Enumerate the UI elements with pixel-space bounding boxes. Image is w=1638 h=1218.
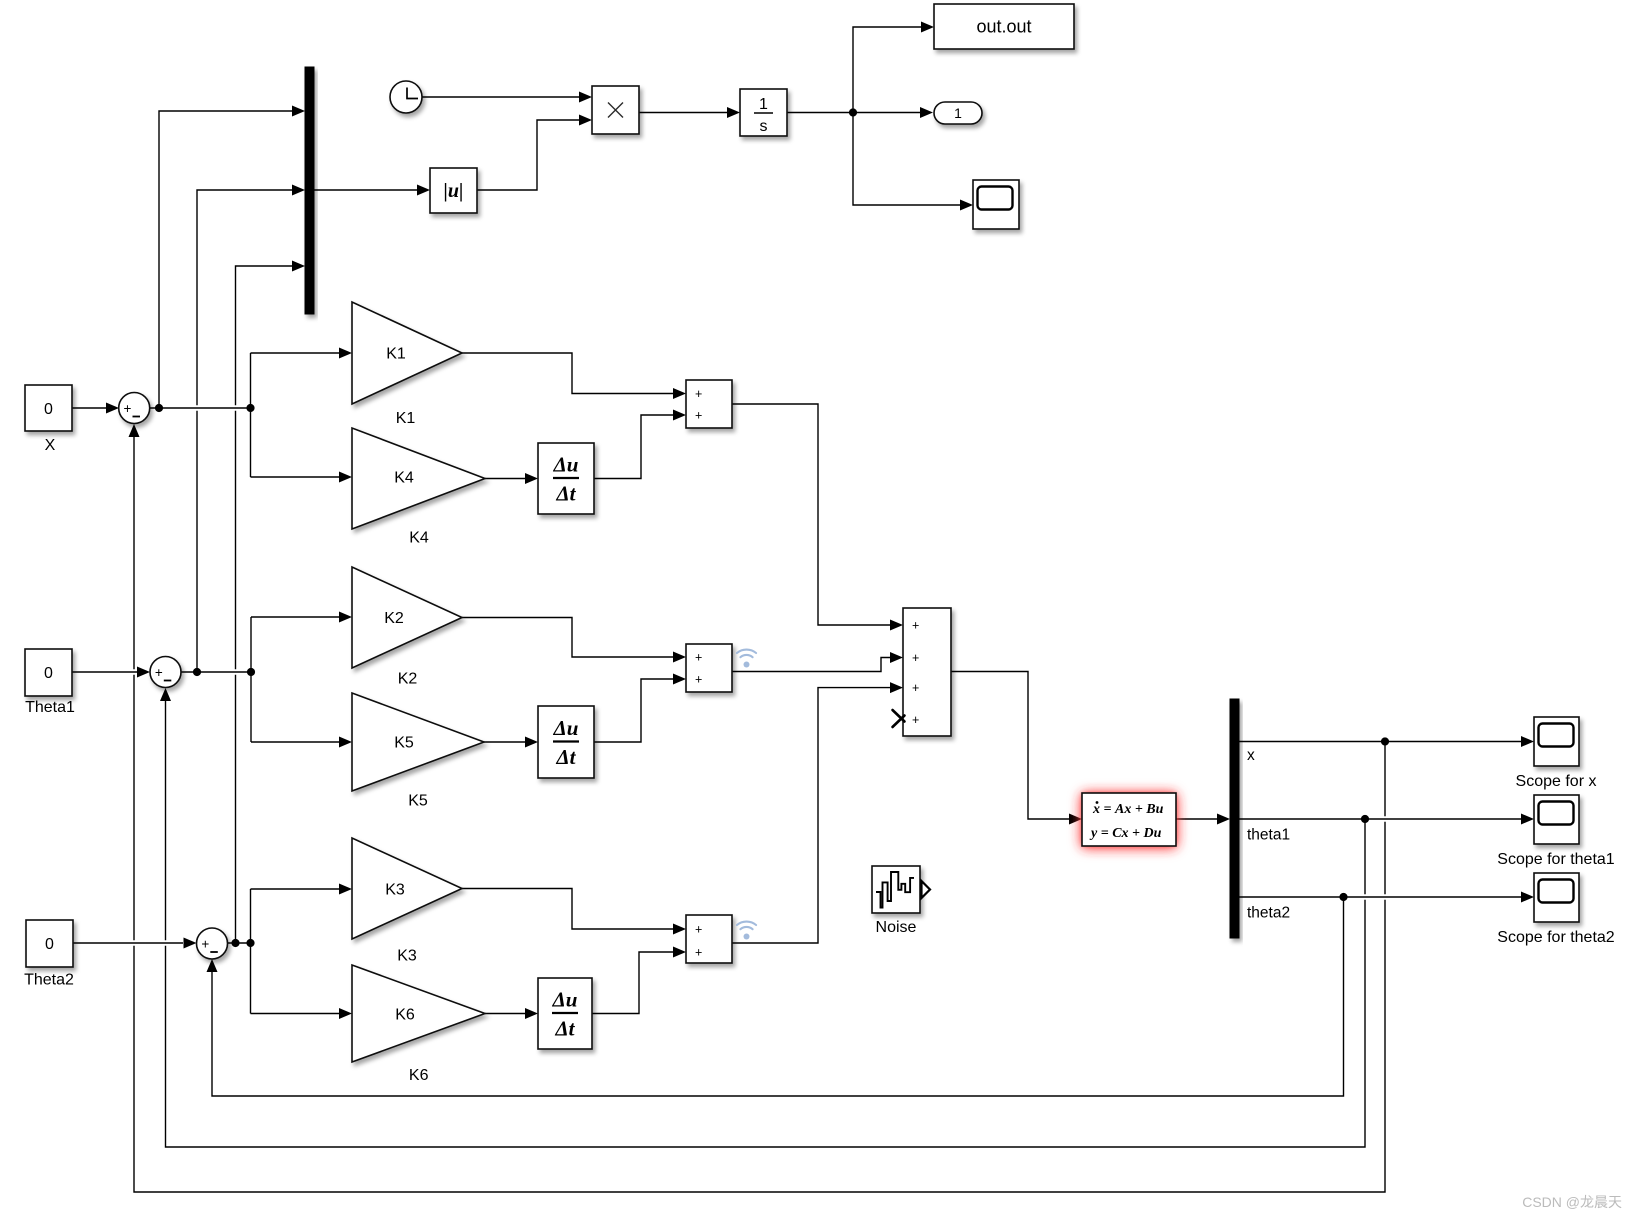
wire Integrator output bbox=[787, 112, 853, 114]
wire K1 to Add1 bbox=[462, 353, 673, 394]
junction node Sum2 output A bbox=[193, 668, 201, 676]
svg-text:+: + bbox=[912, 618, 919, 632]
wire to out.out bbox=[853, 27, 921, 113]
svg-text:K4: K4 bbox=[394, 470, 414, 487]
integrator block 1/s bbox=[740, 89, 787, 136]
scope block Scope for x bbox=[1534, 717, 1579, 766]
svg-text:+: + bbox=[695, 945, 702, 959]
clock block Clock bbox=[390, 81, 422, 113]
svg-text:Theta1: Theta1 bbox=[25, 699, 75, 716]
state-space block (red highlighted) bbox=[1082, 793, 1176, 846]
wire Sum3 output bbox=[228, 942, 251, 944]
svg-text:K2: K2 bbox=[398, 671, 418, 688]
wire to gain K2 bbox=[251, 616, 339, 618]
wire Derivative3 to Add3 bbox=[592, 952, 673, 1014]
wire Derivative1 to Add1 bbox=[594, 415, 673, 479]
wire Demux theta2 to Scope for theta2 bbox=[1239, 896, 1521, 898]
wire Add3 to Add4 input 3 bbox=[732, 688, 890, 943]
outport block 1 bbox=[934, 102, 982, 124]
wire theta1 feedback to Sum2 bbox=[166, 701, 1366, 1147]
wire Sum2 to Mux input 2 bbox=[197, 190, 292, 672]
junction node theta1 output bbox=[1361, 815, 1369, 823]
svg-text:K5: K5 bbox=[394, 735, 414, 752]
svg-text:Δu: Δu bbox=[553, 716, 579, 740]
svg-text:out.out: out.out bbox=[976, 17, 1031, 37]
wire Abs to Product bbox=[477, 120, 579, 190]
svg-text:K1: K1 bbox=[396, 410, 416, 427]
gain block K6 bbox=[352, 965, 485, 1062]
svg-text:0: 0 bbox=[44, 665, 53, 682]
svg-text:+: + bbox=[201, 937, 209, 952]
svg-text:1: 1 bbox=[759, 96, 768, 113]
wire Product to Integrator bbox=[639, 112, 727, 114]
svg-text:x = Ax + Bu: x = Ax + Bu bbox=[1092, 802, 1164, 817]
junction node K2/K5 branch bbox=[247, 668, 255, 676]
svg-text:K6: K6 bbox=[409, 1067, 429, 1084]
svg-text:K4: K4 bbox=[409, 530, 429, 547]
wire to gain K3 bbox=[251, 888, 340, 890]
wire Theta1 to Sum2 bbox=[72, 671, 137, 673]
svg-text:Scope for theta2: Scope for theta2 bbox=[1497, 929, 1615, 946]
wire to gain K6 bbox=[251, 1013, 340, 1015]
wire Sum2 output bbox=[181, 671, 251, 673]
wire Demux x to Scope for x bbox=[1239, 741, 1521, 743]
wire K2 K5 branch bbox=[250, 617, 252, 742]
wire Add4 to State-Space bbox=[951, 672, 1069, 820]
wire Demux theta1 to Scope for theta1 bbox=[1239, 818, 1521, 820]
svg-text:+: + bbox=[912, 681, 919, 695]
wire Add1 to Add4 input 1 bbox=[732, 404, 890, 625]
scope block Scope for theta2 bbox=[1534, 873, 1579, 922]
add block Add2 bbox=[686, 644, 732, 692]
svg-text:K6: K6 bbox=[395, 1007, 415, 1024]
wire theta2 feedback to Sum3 bbox=[212, 897, 1344, 1096]
signal logging badge on Add2 bbox=[737, 650, 756, 658]
svg-text:Δu: Δu bbox=[552, 988, 578, 1012]
junction node theta2 output bbox=[1339, 893, 1347, 901]
wire to gain K1 bbox=[251, 352, 340, 354]
wire to Outport 1 bbox=[853, 112, 920, 114]
abs block |u| bbox=[430, 168, 477, 213]
svg-text:+: + bbox=[912, 713, 919, 727]
demux Demux1 bbox=[1230, 699, 1239, 938]
svg-text:+: + bbox=[695, 387, 702, 401]
svg-text:+: + bbox=[155, 665, 163, 680]
noise block Noise bbox=[872, 866, 920, 913]
add block Add1 bbox=[686, 380, 732, 428]
junction node K1/K4 branch bbox=[246, 404, 254, 412]
wire K3 K6 branch bbox=[250, 889, 252, 1014]
svg-text:+: + bbox=[912, 651, 919, 665]
svg-text:CSDN @龙晨天: CSDN @龙晨天 bbox=[1522, 1194, 1622, 1210]
svg-text:Δu: Δu bbox=[553, 453, 579, 477]
wire Add2 to Add4 input 2 bbox=[732, 658, 890, 672]
junction node Sum1 output A bbox=[155, 404, 163, 412]
wire Theta2 to Sum3 bbox=[73, 942, 183, 944]
wire K1 K4 branch bbox=[250, 353, 252, 477]
svg-text:K5: K5 bbox=[408, 793, 428, 810]
wire K6 to Derivative3 bbox=[485, 1013, 525, 1015]
scope block Scope for theta1 bbox=[1534, 795, 1579, 844]
svg-text:K3: K3 bbox=[385, 882, 405, 899]
wire Sum3 to Mux input 3 bbox=[236, 266, 293, 943]
gain block K1 bbox=[352, 302, 462, 404]
svg-text:theta1: theta1 bbox=[1247, 827, 1290, 844]
wire to gain K4 bbox=[251, 476, 340, 478]
svg-text:0: 0 bbox=[45, 936, 54, 953]
svg-text:1: 1 bbox=[954, 105, 962, 121]
svg-text:K1: K1 bbox=[386, 346, 406, 363]
wire x feedback to Sum1 bbox=[134, 437, 1385, 1192]
derivative block Delta-u/Delta-t 1 bbox=[538, 443, 594, 514]
wire to Scope bbox=[853, 113, 960, 206]
svg-text:+: + bbox=[695, 408, 702, 422]
add block Add4 (4 inputs) bbox=[903, 608, 951, 736]
wire K5 to Derivative2 bbox=[484, 741, 525, 743]
wire State-Space to Demux bbox=[1176, 818, 1217, 820]
svg-text:0: 0 bbox=[44, 401, 53, 418]
noise output port bbox=[922, 881, 931, 898]
sum block Sum2 bbox=[150, 657, 181, 688]
svg-text:K3: K3 bbox=[397, 948, 417, 965]
svg-text:Δt: Δt bbox=[555, 482, 576, 506]
product block Product bbox=[592, 86, 639, 134]
svg-text:K2: K2 bbox=[384, 610, 404, 627]
constant block X (value 0) bbox=[25, 385, 72, 431]
constant block Theta1 (value 0) bbox=[25, 649, 72, 696]
svg-text:Noise: Noise bbox=[876, 919, 917, 936]
svg-text:X: X bbox=[45, 437, 56, 454]
svg-text:theta2: theta2 bbox=[1247, 905, 1290, 922]
svg-text:+: + bbox=[695, 650, 702, 664]
to-file block out.out bbox=[934, 4, 1074, 49]
sum block Sum3 bbox=[197, 928, 228, 959]
derivative block Delta-u/Delta-t 2 bbox=[538, 706, 594, 778]
mux Mux1 bbox=[305, 67, 314, 314]
wire Clock to Product bbox=[422, 96, 579, 98]
gain block K3 bbox=[352, 838, 462, 939]
scope block Scope bbox=[973, 180, 1019, 229]
svg-text:Δt: Δt bbox=[554, 1017, 575, 1041]
wire K3 to Add3 bbox=[462, 889, 673, 930]
svg-text:x: x bbox=[1247, 747, 1255, 764]
gain block K4 bbox=[352, 428, 485, 529]
svg-text:Δt: Δt bbox=[555, 745, 576, 769]
wire to gain K5 bbox=[251, 741, 339, 743]
junction node Integrator output bbox=[849, 108, 857, 116]
svg-text:y = Cx + Du: y = Cx + Du bbox=[1089, 826, 1162, 841]
svg-text:s: s bbox=[760, 118, 768, 135]
constant block Theta2 (value 0) bbox=[26, 920, 73, 967]
gain block K2 bbox=[352, 567, 462, 668]
wire Mux to Abs bbox=[314, 189, 417, 191]
svg-text:Scope for x: Scope for x bbox=[1516, 773, 1597, 790]
wire Sum1 to Mux input 1 bbox=[159, 111, 292, 408]
wire Derivative2 to Add2 bbox=[594, 679, 673, 742]
wire Sum1 output bbox=[150, 407, 251, 409]
svg-text:+: + bbox=[124, 401, 132, 416]
derivative block Delta-u/Delta-t 3 bbox=[538, 978, 592, 1049]
wire X to Sum1 bbox=[72, 407, 106, 409]
svg-text:Scope for theta1: Scope for theta1 bbox=[1497, 851, 1615, 868]
wire K4 to Derivative1 bbox=[485, 478, 525, 480]
signal logging badge on Add3 bbox=[737, 922, 756, 930]
sum block Sum1 bbox=[119, 393, 150, 424]
unconnected input marker on Add4 bbox=[893, 710, 905, 727]
junction node x output bbox=[1381, 737, 1389, 745]
svg-text:+: + bbox=[695, 922, 702, 936]
svg-text:|u|: |u| bbox=[444, 180, 464, 202]
junction node K3/K6 branch bbox=[246, 939, 254, 947]
junction node Sum3 output A bbox=[231, 939, 239, 947]
add block Add3 bbox=[686, 915, 732, 963]
gain block K5 bbox=[352, 693, 484, 791]
wire K2 to Add2 bbox=[462, 618, 673, 658]
svg-text:+: + bbox=[695, 672, 702, 686]
svg-text:Theta2: Theta2 bbox=[24, 972, 74, 989]
